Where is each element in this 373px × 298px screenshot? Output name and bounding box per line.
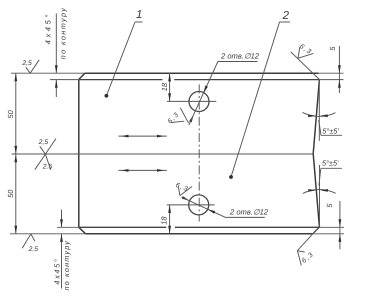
svg-text:18: 18: [159, 216, 168, 225]
svg-text:2.5: 2.5: [42, 163, 53, 170]
svg-text:2: 2: [282, 10, 290, 22]
svg-text:4x45°: 4x45°: [53, 258, 62, 285]
svg-text:5°±5': 5°±5': [322, 158, 339, 167]
svg-text:1: 1: [136, 9, 142, 21]
svg-text:50: 50: [6, 109, 15, 118]
svg-text:5°±5': 5°±5': [322, 126, 339, 135]
svg-text:2 отв.∅12: 2 отв.∅12: [220, 51, 260, 60]
svg-text:2 отв.∅12: 2 отв.∅12: [229, 207, 269, 216]
svg-text:50: 50: [6, 189, 15, 198]
svg-text:2.5: 2.5: [28, 246, 39, 253]
svg-text:4x45°: 4x45°: [44, 12, 53, 44]
svg-text:2,5: 2,5: [21, 60, 32, 67]
svg-text:18: 18: [160, 82, 169, 91]
svg-text:по контуру: по контуру: [62, 240, 71, 291]
svg-text:по контуру: по контуру: [59, 7, 68, 60]
svg-text:2,5: 2,5: [38, 139, 49, 146]
